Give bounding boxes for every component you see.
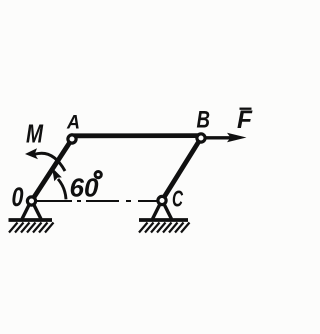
moment M curved arrow bbox=[25, 148, 65, 171]
svg-text:B: B bbox=[197, 106, 211, 133]
hatching at C bbox=[139, 223, 190, 233]
svg-text:60: 60 bbox=[70, 174, 99, 202]
hatching at O bbox=[9, 223, 54, 233]
bar AB bbox=[71, 133, 202, 138]
F overbar bbox=[240, 108, 252, 110]
svg-text:A: A bbox=[66, 112, 80, 134]
bar CB bbox=[162, 138, 201, 201]
60-degree angle arc with arrow bbox=[52, 168, 66, 200]
ground line at C bbox=[139, 218, 188, 222]
support triangle at C bbox=[153, 203, 172, 219]
support triangle at O bbox=[22, 203, 41, 219]
ground line at O bbox=[9, 218, 53, 222]
svg-text:0: 0 bbox=[12, 182, 24, 212]
wire: dash-dot centerline O to C bbox=[36, 200, 157, 202]
degree sign bbox=[95, 172, 101, 178]
pin C bbox=[158, 196, 166, 204]
pin B bbox=[197, 134, 205, 142]
svg-text:C: C bbox=[172, 186, 183, 212]
force F arrow at B bbox=[206, 133, 247, 142]
bar OA bbox=[32, 139, 73, 201]
pin A bbox=[68, 135, 76, 143]
svg-text:F: F bbox=[237, 106, 253, 134]
pin O bbox=[27, 197, 35, 205]
svg-text:M: M bbox=[26, 121, 44, 149]
